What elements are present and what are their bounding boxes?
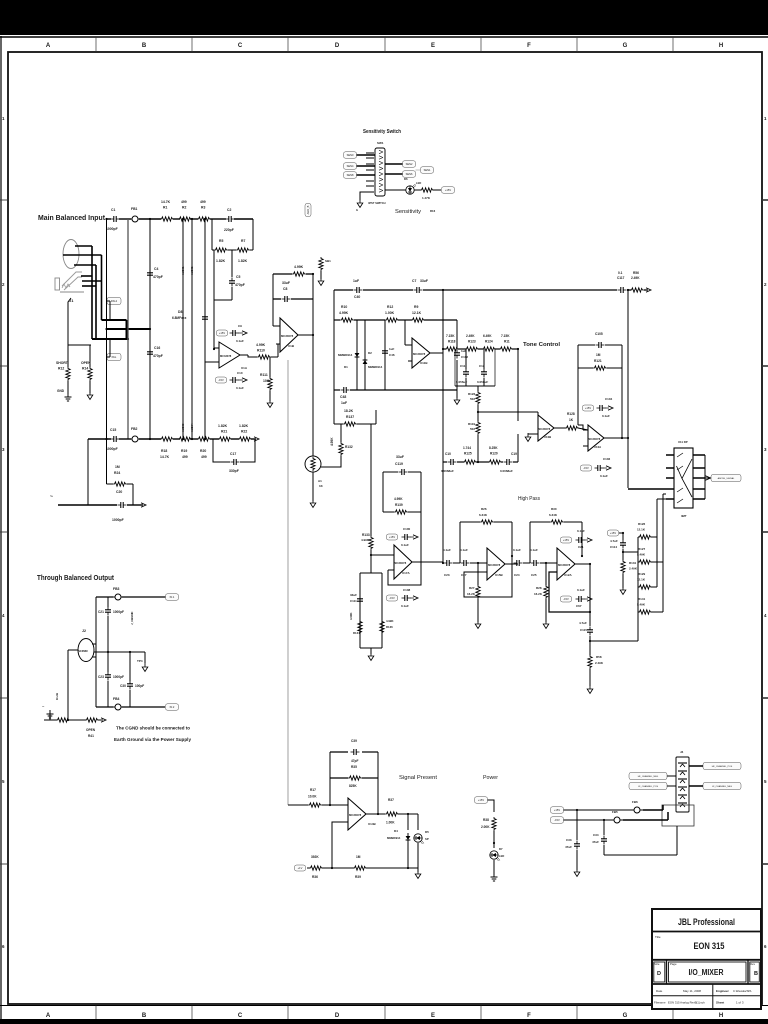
svg-text:G: G <box>623 1013 628 1019</box>
svg-text:C17: C17 <box>230 452 236 456</box>
svg-text:R110: R110 <box>257 349 265 353</box>
svg-text:0.1uF: 0.1uF <box>460 548 468 552</box>
ground R131 <box>620 586 626 595</box>
bottom ruler column ticks <box>96 1006 673 1020</box>
svg-text:R39: R39 <box>355 875 361 879</box>
svg-text:4.99K: 4.99K <box>339 311 349 315</box>
svg-text:LF_CHANNEL_POS: LF_CHANNEL_POS <box>638 785 659 788</box>
wire J2 shield drop <box>68 649 78 651</box>
svg-text:R133: R133 <box>362 533 370 537</box>
switch SW1 left pins <box>366 153 374 192</box>
svg-text:33uF: 33uF <box>350 593 357 597</box>
svg-text:IN.2: IN.2 <box>170 705 175 709</box>
svg-text:C21: C21 <box>98 610 104 614</box>
svg-text:16.2K: 16.2K <box>467 592 476 596</box>
svg-text:1M: 1M <box>356 855 361 859</box>
net label SEN10 right <box>421 167 434 174</box>
connector J1 quarter-inch jack <box>55 272 102 292</box>
svg-text:499: 499 <box>181 200 187 204</box>
op-amp U17A <box>394 545 412 579</box>
wire ladder to mux <box>657 498 666 500</box>
led D5 signal present <box>417 814 419 830</box>
resistor R14 OPEN <box>88 367 92 381</box>
svg-text:SEN8: SEN8 <box>347 173 354 177</box>
svg-text:R18: R18 <box>161 449 167 453</box>
svg-text:7.15K: 7.15K <box>446 334 455 338</box>
svg-text:D7: D7 <box>499 847 503 851</box>
net label VBB <box>295 865 306 871</box>
wire tone left bus x443 <box>442 290 444 563</box>
svg-text:TP4: TP4 <box>137 659 143 663</box>
led D7 power <box>490 851 500 861</box>
resistor R131 vertical <box>621 560 625 574</box>
diode D1 <box>356 320 358 390</box>
svg-text:R19: R19 <box>181 449 187 453</box>
wire to ladder y641 <box>590 640 638 642</box>
resistor R124 <box>478 348 483 350</box>
svg-text:A: A <box>46 1013 51 1019</box>
switch U16 left pins <box>666 455 674 499</box>
svg-text:0.1uF: 0.1uF <box>602 414 610 418</box>
capacitor C39 feedback <box>330 751 348 753</box>
svg-text:FB3: FB3 <box>113 587 120 591</box>
svg-text:C23: C23 <box>444 573 450 577</box>
wire arrow end of bottom rail <box>254 437 259 441</box>
ferrite bead FB6 <box>631 807 643 813</box>
capacitor C12 <box>483 349 485 369</box>
capacitor C100 power <box>387 534 398 540</box>
svg-text:C5: C5 <box>236 275 240 279</box>
svg-text:R127: R127 <box>638 547 646 551</box>
svg-text:R17: R17 <box>310 788 316 792</box>
svg-text:FB5: FB5 <box>612 810 618 814</box>
svg-text:1000pF: 1000pF <box>106 447 118 451</box>
svg-text:Sensitivity Switch: Sensitivity Switch <box>363 129 402 135</box>
capacitor C17 loop <box>213 439 230 462</box>
svg-text:1.82K: 1.82K <box>239 424 249 428</box>
svg-text:R3: R3 <box>201 206 205 210</box>
svg-text:AUD04: AUD04 <box>190 423 194 432</box>
svg-text:OPEN: OPEN <box>86 728 96 732</box>
svg-text:33uF: 33uF <box>420 279 428 283</box>
svg-text:R.U.B: R.U.B <box>55 693 59 700</box>
svg-text:8.25K: 8.25K <box>489 446 498 450</box>
junction dots input rails <box>105 218 107 220</box>
svg-text:R7: R7 <box>241 239 245 243</box>
svg-text:R26: R26 <box>481 507 487 511</box>
svg-text:Title: Title <box>655 935 661 939</box>
ferrite bead FB1 <box>129 216 141 222</box>
switch U16 right pins <box>693 455 705 499</box>
svg-text:16.2K: 16.2K <box>534 592 543 596</box>
svg-text:C25: C25 <box>531 573 537 577</box>
svg-text:C48: C48 <box>340 395 346 399</box>
resistor R125 <box>463 460 477 464</box>
capacitor C46 <box>384 320 386 390</box>
capacitor C16 <box>147 349 153 358</box>
svg-text:C30: C30 <box>120 684 126 688</box>
op-amp U1B <box>280 318 298 352</box>
svg-text:0.1uF: 0.1uF <box>577 588 585 592</box>
ground R28 <box>543 620 549 629</box>
bottom letterbox bar <box>0 1019 768 1024</box>
svg-text:C119: C119 <box>395 462 403 466</box>
svg-text:R36: R36 <box>312 875 318 879</box>
svg-text:R122: R122 <box>468 392 476 396</box>
svg-text:C7: C7 <box>412 279 416 283</box>
svg-text:1.00K: 1.00K <box>385 311 395 315</box>
wire signal present feed <box>287 360 289 805</box>
capacitor C67 power <box>561 596 572 602</box>
sheet border outer top line <box>0 36 768 38</box>
svg-text:MC33078: MC33078 <box>538 427 551 431</box>
svg-text:C114: C114 <box>610 545 617 549</box>
capacitor C21b <box>107 597 109 607</box>
svg-text:G: G <box>623 43 628 49</box>
wire tone bottom rail <box>443 461 447 463</box>
svg-text:E: E <box>431 43 435 49</box>
title block frame <box>652 909 761 1009</box>
svg-text:R24: R24 <box>114 471 120 475</box>
diode D2 <box>364 320 366 390</box>
svg-text:1M: 1M <box>596 353 601 357</box>
svg-text:R9: R9 <box>414 305 418 309</box>
top ruler column ticks <box>96 37 673 52</box>
svg-text:F: F <box>527 1013 531 1019</box>
power pin +15V with capacitor C9 <box>217 330 228 336</box>
svg-text:1 of 3: 1 of 3 <box>736 1001 744 1005</box>
svg-text:1K: 1K <box>569 418 574 422</box>
svg-text:R2: R2 <box>182 206 186 210</box>
net label SEN6 right <box>403 171 416 178</box>
wire input bottom rail <box>88 438 111 440</box>
op-amp U11B <box>412 338 430 368</box>
resistor ladder R141 <box>638 610 652 614</box>
wire tone mid bar <box>455 385 495 387</box>
svg-text:1.82K: 1.82K <box>216 259 226 263</box>
svg-text:R136: R136 <box>386 625 393 629</box>
resistor R12b <box>385 318 399 322</box>
svg-text:0.1uF: 0.1uF <box>577 529 585 533</box>
capacitor C2 <box>226 216 235 222</box>
ferrite bead FB3 <box>112 594 124 600</box>
svg-text:LED: LED <box>499 854 504 858</box>
resistor ladder R126 <box>638 535 652 539</box>
wire U12A lower loop <box>549 572 590 612</box>
svg-text:R129: R129 <box>638 572 646 576</box>
svg-text:47uF: 47uF <box>592 840 599 844</box>
svg-text:10.0K: 10.0K <box>308 795 317 799</box>
svg-text:R119: R119 <box>468 422 475 426</box>
svg-text:12.1K: 12.1K <box>637 528 646 532</box>
resistor R122 upper pot <box>476 391 480 405</box>
svg-text:Size: Size <box>654 962 660 966</box>
svg-text:33uF: 33uF <box>396 455 404 459</box>
svg-text:MC33078: MC33078 <box>413 352 426 356</box>
svg-text:A1: A1 <box>318 479 322 483</box>
svg-text:Date: Date <box>656 989 663 993</box>
svg-text:4.99K: 4.99K <box>256 343 266 347</box>
op-amp U1A <box>219 342 240 368</box>
capacitor C19 <box>504 459 513 465</box>
capacitor C104 power <box>583 405 594 411</box>
resistor R123 <box>458 348 466 350</box>
resistor R120 <box>488 460 502 464</box>
svg-text:1uF: 1uF <box>353 279 359 283</box>
svg-text:825K: 825K <box>349 784 357 788</box>
svg-text:Signal Present: Signal Present <box>399 775 437 781</box>
svg-text:C46: C46 <box>389 353 395 357</box>
svg-text:C11: C11 <box>460 364 466 368</box>
wire input crossing matrix <box>102 319 127 321</box>
resistor R136 <box>380 620 384 634</box>
wire J1 shield drop <box>68 298 91 345</box>
svg-text:R35: R35 <box>351 765 357 769</box>
capacitor C48 <box>341 387 350 393</box>
svg-text:R22: R22 <box>241 430 247 434</box>
ground SB1 <box>318 277 324 286</box>
capacitor C10b <box>448 459 457 465</box>
top letterbox bar <box>0 0 768 35</box>
net label LF_CHANNEL_POS <box>629 783 667 790</box>
ferrite bead FB5 <box>611 817 623 823</box>
switch SW1 body <box>375 148 385 196</box>
svg-text:1.00K: 1.00K <box>386 821 395 825</box>
ground SW1 <box>357 199 363 208</box>
sheet border left edge <box>0 36 2 1019</box>
op-amp U10A <box>588 425 604 451</box>
svg-text:470pF: 470pF <box>153 354 163 358</box>
svg-text:C108: C108 <box>403 588 411 592</box>
svg-text:+15V: +15V <box>563 538 569 542</box>
svg-text:J_CHGND: J_CHGND <box>130 612 134 625</box>
wire ladder right links <box>651 536 657 538</box>
svg-text:-15V: -15V <box>389 596 395 600</box>
svg-text:EON 315 Analog RevB[1].sch: EON 315 Analog RevB[1].sch <box>668 1001 705 1005</box>
svg-text:D6: D6 <box>404 177 408 181</box>
svg-text:C117: C117 <box>617 276 625 280</box>
svg-text:C10: C10 <box>237 371 243 375</box>
svg-text:SP: SP <box>425 837 429 841</box>
wire hp lower box <box>360 572 382 574</box>
svg-text:3MT: 3MT <box>681 514 687 518</box>
svg-text:0.1uF: 0.1uF <box>236 339 244 343</box>
svg-text:R14: R14 <box>82 367 88 371</box>
bottom ruler column letters <box>46 1013 723 1019</box>
right ruler row ticks <box>762 200 768 864</box>
wire R137 to R132 drop <box>333 390 335 424</box>
resistor R10 <box>340 318 354 322</box>
arrow end CGND <box>141 503 146 507</box>
wire bottom rail to J4 <box>604 854 677 856</box>
svg-text:+1V: +1V <box>298 866 303 870</box>
resistor R3 <box>197 217 211 221</box>
svg-text:0.1uF: 0.1uF <box>401 604 409 608</box>
svg-text:14.7K: 14.7K <box>160 455 170 459</box>
svg-text:0.1uF: 0.1uF <box>600 474 608 478</box>
svg-text:18.2K: 18.2K <box>344 409 354 413</box>
capacitor C4 <box>147 270 153 279</box>
svg-text:MC33078: MC33078 <box>281 334 294 338</box>
svg-text:0.1uF: 0.1uF <box>401 543 409 547</box>
resistor R134 <box>358 620 362 634</box>
net label +15V sensitivity <box>442 187 455 194</box>
svg-text:R134: R134 <box>353 631 360 635</box>
net label SEN8 <box>344 172 357 179</box>
svg-text:FB2: FB2 <box>131 427 138 431</box>
svg-text:R21: R21 <box>221 430 227 434</box>
svg-text:4.99K: 4.99K <box>386 619 393 623</box>
connector J4 header <box>676 757 689 812</box>
resistor R56 <box>630 288 644 292</box>
resistor R110 <box>257 355 271 359</box>
resistor R118 <box>443 348 446 350</box>
svg-text:0.1uF: 0.1uF <box>513 548 521 552</box>
left ruler row ticks <box>0 200 8 864</box>
svg-text:+15V: +15V <box>445 188 451 192</box>
test point TP4 <box>144 652 146 663</box>
svg-text:D: D <box>335 43 340 49</box>
svg-text:R124: R124 <box>485 340 493 344</box>
op-amp U15B <box>487 548 505 580</box>
svg-text:R28: R28 <box>536 586 542 590</box>
svg-text:R123: R123 <box>468 340 476 344</box>
net label +15V power <box>475 797 488 804</box>
ground CGND left <box>47 711 54 718</box>
svg-text:MC33078: MC33078 <box>220 354 232 358</box>
capacitor C30 <box>129 652 131 681</box>
ground C33 <box>574 868 580 877</box>
ground below R111 <box>267 399 273 408</box>
svg-text:C8: C8 <box>283 287 287 291</box>
svg-text:AUD02: AUD02 <box>190 266 194 275</box>
svg-text:U12A: U12A <box>564 573 573 577</box>
ground signal present <box>417 868 419 872</box>
svg-text:H: H <box>719 43 723 49</box>
svg-text:U11B: U11B <box>420 361 428 365</box>
ground hp box <box>368 652 374 661</box>
svg-text:33uF: 33uF <box>282 281 290 285</box>
right ruler row numbers <box>764 116 767 949</box>
svg-text:C23: C23 <box>98 675 104 679</box>
svg-text:R11: R11 <box>504 340 510 344</box>
box below J4 <box>662 805 694 826</box>
svg-text:1.82K: 1.82K <box>218 424 228 428</box>
capacitor C40 <box>354 287 363 293</box>
svg-text:U14B: U14B <box>368 822 377 826</box>
svg-text:A: A <box>46 43 51 49</box>
resistor SB1 vertical <box>319 257 323 271</box>
net label HF_CHANNEL_POS <box>703 763 741 770</box>
wire mux input thick <box>628 488 666 490</box>
wire vertical bus left pair <box>106 219 108 439</box>
resistor R17 <box>308 803 322 807</box>
svg-text:C40: C40 <box>354 295 360 299</box>
arrow end y290 <box>646 288 651 292</box>
op-amp U12A <box>557 548 575 580</box>
svg-text:R10: R10 <box>341 305 347 309</box>
ground R58 <box>587 685 593 694</box>
svg-text:R125: R125 <box>464 452 472 456</box>
svg-text:+15V: +15V <box>389 535 395 539</box>
svg-text:D1: D1 <box>344 365 348 369</box>
svg-text:FB6: FB6 <box>632 800 638 804</box>
svg-text:FB4: FB4 <box>113 697 120 701</box>
svg-text:C.Wauska/SPL: C.Wauska/SPL <box>733 989 752 993</box>
svg-text:C39: C39 <box>351 739 357 743</box>
capacitor C119 loop <box>383 471 398 473</box>
svg-text:1M: 1M <box>115 465 120 469</box>
wire tone wiper <box>478 411 538 413</box>
svg-text:4.99K: 4.99K <box>349 613 353 620</box>
net label SEN4 <box>344 163 357 170</box>
svg-text:R131: R131 <box>629 561 637 565</box>
capacitor C8 feedback <box>273 298 281 300</box>
svg-text:C4: C4 <box>154 267 158 271</box>
resistor R16 sensitivity <box>414 189 421 191</box>
svg-text:4.99K: 4.99K <box>394 497 403 501</box>
svg-text:D: D <box>335 1013 340 1019</box>
svg-text:R12: R12 <box>387 305 393 309</box>
svg-text:330pF: 330pF <box>229 469 239 473</box>
net label SEN2 right <box>403 161 416 168</box>
svg-text:U15B: U15B <box>495 573 504 577</box>
wire through top rail <box>96 596 113 598</box>
top ruler column letters <box>46 43 723 49</box>
wire signal present bottom rail <box>307 867 310 869</box>
wire U11B loop bottom <box>334 389 340 391</box>
svg-text:C67: C67 <box>576 604 582 608</box>
resistor R38 <box>492 817 496 831</box>
svg-text:6.34K: 6.34K <box>549 513 558 517</box>
svg-text:R128: R128 <box>567 412 575 416</box>
capacitor C23b <box>107 652 109 672</box>
capacitor C105 feedback <box>578 344 595 346</box>
svg-text:NC3MM: NC3MM <box>78 649 88 653</box>
svg-text:R141: R141 <box>638 597 646 601</box>
svg-text:Power: Power <box>483 775 498 781</box>
wire input top rail <box>107 218 112 220</box>
svg-text:C2: C2 <box>227 208 231 212</box>
wire U11B loop left <box>333 290 335 390</box>
svg-text:C: C <box>238 43 243 49</box>
led D6 sensitivity <box>385 189 406 191</box>
svg-text:HF_CHANNEL_NEG: HF_CHANNEL_NEG <box>638 775 659 778</box>
ferrite bead FB4 <box>112 704 124 710</box>
svg-text:R5: R5 <box>219 239 223 243</box>
resistor R28 <box>544 585 548 599</box>
resistor R58 <box>588 655 592 669</box>
svg-text:R120: R120 <box>490 452 498 456</box>
wire CGND bottom stub <box>87 439 89 505</box>
svg-text:R12: R12 <box>58 367 64 371</box>
capacitor C33 <box>576 810 578 840</box>
svg-text:May 11, 2008: May 11, 2008 <box>683 989 701 993</box>
svg-text:EON 315: EON 315 <box>694 941 725 951</box>
svg-text:~: ~ <box>50 494 53 500</box>
svg-text:MMBD914: MMBD914 <box>368 365 383 369</box>
wire R5 R7 box <box>213 250 215 349</box>
svg-text:U17A: U17A <box>402 571 411 575</box>
svg-text:C16: C16 <box>154 346 160 350</box>
svg-text:I/O_MIXER: I/O_MIXER <box>689 968 724 977</box>
resistor R40 <box>56 718 70 722</box>
bottom ruler top line <box>0 1005 768 1007</box>
svg-text:0.056uF: 0.056uF <box>477 380 488 384</box>
ferrite bead FB2 <box>129 436 141 442</box>
power pin -15V with capacitor C10 <box>216 377 227 383</box>
svg-text:392K: 392K <box>311 855 319 859</box>
